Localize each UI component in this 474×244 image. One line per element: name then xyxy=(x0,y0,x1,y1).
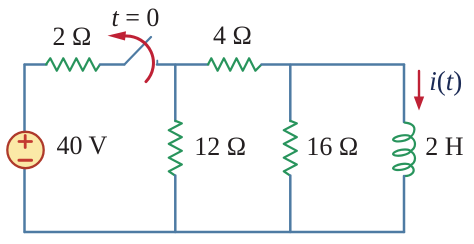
current arrow i(t) xyxy=(418,71,420,99)
voltage source plus sign xyxy=(19,136,32,148)
wire switch to node A xyxy=(157,63,208,66)
wire bottom xyxy=(25,231,405,234)
wire 4ohm to top-right corner xyxy=(262,63,405,66)
switch blade xyxy=(124,37,151,65)
wire 2ohm to switch xyxy=(100,63,124,66)
switch arc arrow t=0 xyxy=(126,36,154,82)
switch right contact stub xyxy=(156,61,158,65)
wire branch 16ohm top xyxy=(289,65,292,122)
resistor R 4ohm xyxy=(208,58,262,70)
resistor R 12ohm xyxy=(169,121,182,176)
resistor R 16ohm xyxy=(284,121,297,176)
wire right vertical bottom xyxy=(403,176,406,232)
label 12 ohm xyxy=(194,132,246,162)
label 16 ohm xyxy=(306,132,358,162)
label 4 ohm xyxy=(213,21,252,51)
wire right vertical top xyxy=(403,65,406,123)
label 40 V xyxy=(57,131,108,161)
resistor R 2ohm xyxy=(46,58,100,70)
wire top-left to 2ohm xyxy=(25,63,47,66)
current arrowhead xyxy=(414,97,424,111)
wire left vertical xyxy=(23,65,26,233)
inductor L 2H coil xyxy=(393,123,415,176)
wire branch 12ohm top xyxy=(174,65,177,122)
wire branch 12ohm bottom xyxy=(174,176,177,233)
voltage source VS 40V circle xyxy=(7,132,43,168)
switch arrowhead xyxy=(108,31,127,40)
label 2 H xyxy=(425,132,463,162)
label t = 0 xyxy=(112,3,160,33)
wire branch 16ohm bottom xyxy=(289,176,292,233)
label 2 ohm xyxy=(53,22,92,52)
label i(t) xyxy=(429,66,462,97)
voltage source minus sign xyxy=(19,159,32,162)
